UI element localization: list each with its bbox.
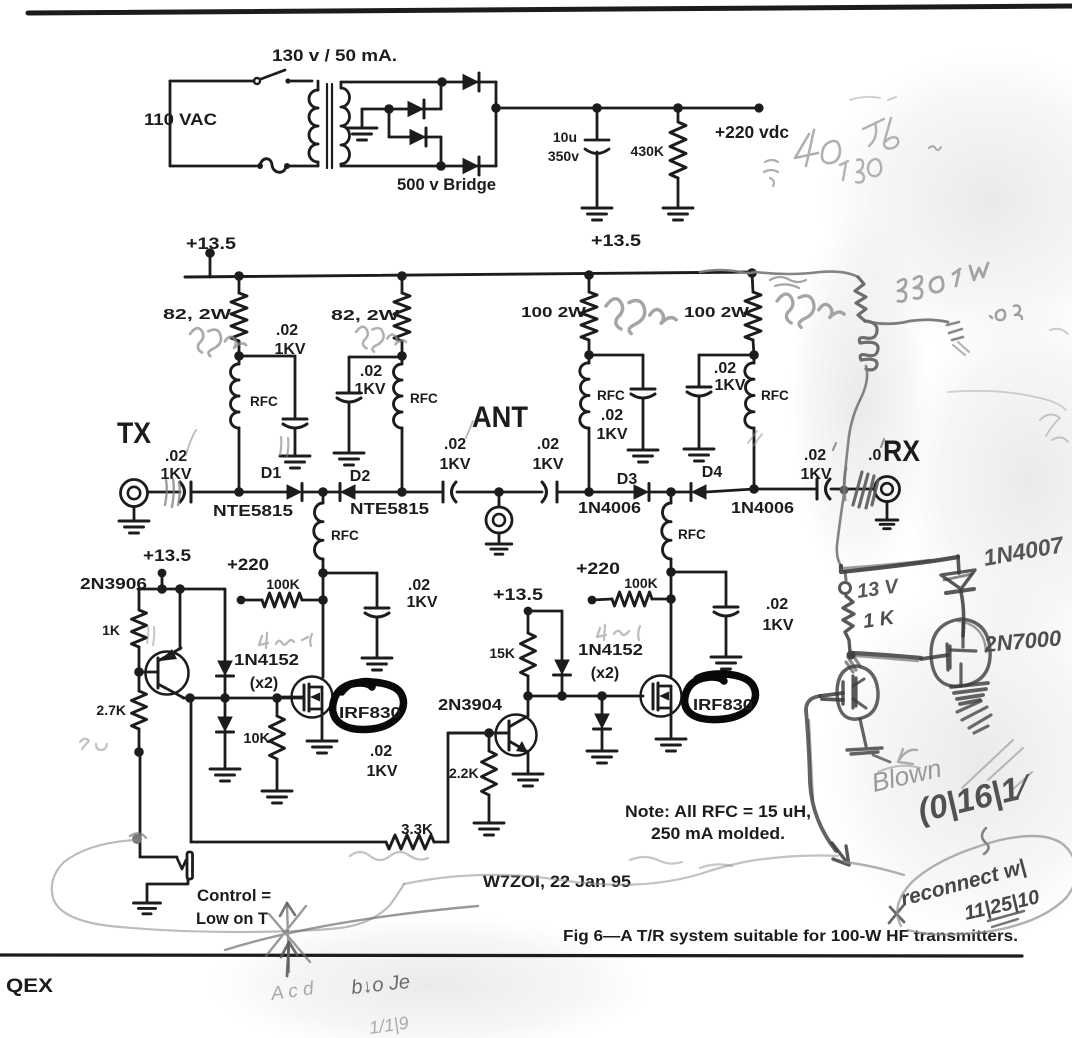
MOSFET Q4 IRF830 right <box>641 676 682 717</box>
pencil 9Dr col1 <box>190 328 246 356</box>
wire +13.5 bus <box>185 272 755 277</box>
ground col2 cap <box>334 453 364 465</box>
page top rule <box>28 6 1072 13</box>
node main mid-right <box>666 487 676 497</box>
ground bleeder <box>663 208 693 220</box>
capacitor 10u 350v <box>585 108 609 207</box>
ground filter cap <box>582 208 612 220</box>
svg-text:10K: 10K <box>243 731 270 747</box>
capacitor .02 1KV midright <box>714 607 738 656</box>
terminal +13.5 dot <box>205 248 215 258</box>
pencil marks near D1 <box>280 437 288 456</box>
ground col1 cap <box>280 456 310 468</box>
label NTE5815 right <box>350 501 429 518</box>
resistor 3.3K <box>386 835 434 849</box>
node ctl-gate b <box>220 693 230 703</box>
svg-text:ANT: ANT <box>472 401 528 434</box>
label .02 RXcap <box>804 447 826 464</box>
wire mosfet1 source <box>321 709 324 740</box>
wire mid down <box>388 109 391 137</box>
svg-text:+220 vdc: +220 vdc <box>715 122 789 142</box>
svg-text:1KV: 1KV <box>406 594 437 611</box>
node gateR b <box>557 691 567 701</box>
svg-text:100 2W: 100 2W <box>684 305 749 321</box>
wire secondary top rail <box>341 82 442 88</box>
svg-text:(x2): (x2) <box>250 675 278 692</box>
label 82,2W col1 <box>163 307 231 323</box>
diode bridge mid-lower <box>389 128 441 166</box>
ground mosfet1 <box>307 741 337 753</box>
ground 10K <box>262 791 292 803</box>
pencil note 1N4007 text <box>981 531 1066 571</box>
svg-text:1KV: 1KV <box>596 426 627 443</box>
label RFC mid-left <box>331 528 359 543</box>
svg-text:D4: D4 <box>702 464 723 481</box>
pencil 2N7000 source hatch <box>951 683 988 704</box>
wire 3.3K right <box>434 733 509 842</box>
svg-text:NTE5815: NTE5815 <box>350 501 429 518</box>
transistor Q2 2N3904 <box>448 696 537 773</box>
wire ctl collector drop <box>190 698 193 842</box>
svg-text:1KV: 1KV <box>366 763 397 780</box>
node bridge mid <box>384 104 394 114</box>
pencil scribble above bus col4 <box>770 277 806 288</box>
pencil coil hand <box>859 321 878 370</box>
svg-text:1N4152: 1N4152 <box>578 642 643 659</box>
wire +13.5 stub ctl <box>161 573 164 589</box>
ground midleft cap <box>362 658 392 670</box>
terminal +220 end dot <box>754 103 763 112</box>
pencil note 330 1W <box>898 263 988 302</box>
pencil 119 note <box>368 1013 410 1038</box>
pencil wire bus extension <box>700 270 858 277</box>
capacitor .02 1KV RX series <box>817 479 830 499</box>
svg-text:250 mA molded.: 250 mA molded. <box>651 824 785 843</box>
pencil oval loop reconnect <box>845 836 1072 935</box>
wire 3.3K left <box>191 841 386 844</box>
node main col1 <box>234 487 244 497</box>
svg-text:.02: .02 <box>444 436 466 453</box>
svg-text:2.7K: 2.7K <box>96 702 126 718</box>
pencil mark ANT slash <box>466 421 473 438</box>
connector ANT jack <box>486 492 512 533</box>
label RFC col4 <box>761 388 789 403</box>
svg-text:+13.5: +13.5 <box>143 546 191 565</box>
pencil ground 2N7000 <box>957 701 991 733</box>
wire primary stubs <box>317 81 320 166</box>
svg-text:TX: TX <box>117 417 151 450</box>
diode bridge mid-upper <box>389 82 441 118</box>
svg-text:RFC: RFC <box>678 527 706 542</box>
node ctl-gate a <box>185 693 195 703</box>
node ctl rail b <box>175 584 185 594</box>
ground midright cap <box>711 657 741 669</box>
pencil transistor 2N7000 hand <box>921 619 990 686</box>
label +13.5 ctrl-right <box>493 585 543 604</box>
label 1N4152 left <box>234 652 299 669</box>
label 2.2K <box>449 765 479 781</box>
svg-text:100K: 100K <box>624 575 657 591</box>
label IRF830 left <box>339 705 401 722</box>
resistor 100K left <box>241 593 323 607</box>
svg-text:1N4006: 1N4006 <box>578 500 641 517</box>
MOSFET Q3 IRF830 left <box>292 677 333 718</box>
label 1N4006 left <box>578 500 641 517</box>
fuse F1 <box>257 159 290 173</box>
node col1 junction <box>234 351 244 361</box>
pencil resistor hand zigzag <box>855 277 866 321</box>
RFC choke col2 <box>394 356 403 492</box>
diode D4 <box>671 484 754 501</box>
label 1KV midleft <box>406 594 437 611</box>
svg-text:1KV: 1KV <box>354 381 385 398</box>
wire clamp column top <box>224 589 225 661</box>
svg-text:QEX: QEX <box>6 975 53 997</box>
label 110 VAC <box>144 111 217 129</box>
svg-text:15K: 15K <box>489 645 515 661</box>
label 1K <box>102 622 120 638</box>
svg-text:D2: D2 <box>350 468 371 485</box>
svg-text:500 v Bridge: 500 v Bridge <box>397 175 496 194</box>
note RFC text1 <box>625 802 811 821</box>
label .02 capA1 <box>444 436 466 453</box>
pencil squiggle brace <box>982 828 989 854</box>
pencil note 2N7000 text <box>982 625 1063 657</box>
wire drain vertical left <box>322 573 325 677</box>
pencil wire down to RX line <box>844 366 867 489</box>
label 15K <box>489 645 515 661</box>
terminal +220 left dot <box>237 596 246 605</box>
wire capRX to RX <box>831 488 874 491</box>
wire RX ground stub <box>886 502 889 519</box>
svg-text:.02: .02 <box>766 596 788 613</box>
pencil note 13V <box>856 575 901 603</box>
wire col1 cap branch <box>239 356 295 419</box>
pencil 9Dr col4 <box>777 294 844 327</box>
page bottom rule <box>0 955 1022 956</box>
diode clamp D5 1N4152 <box>217 661 234 698</box>
svg-text:2N3906: 2N3906 <box>80 576 147 593</box>
svg-text:NTE5815: NTE5815 <box>213 503 293 520</box>
node gate-div left <box>318 595 328 605</box>
pencil note .02 right <box>990 305 1022 320</box>
transformer T1 primary winding <box>309 90 318 162</box>
node drain top right <box>666 567 676 577</box>
pencil faint curls right <box>948 329 1068 442</box>
svg-text:110 VAC: 110 VAC <box>144 111 217 129</box>
resistor 82ohm 2W col2 <box>394 276 410 356</box>
pencil wire to cap branch <box>869 320 948 324</box>
node drain top left <box>318 568 328 578</box>
label TX <box>117 417 151 450</box>
wire mosfet2 source <box>670 708 673 738</box>
wire gate bus right <box>528 695 643 698</box>
svg-text:RX: RX <box>883 435 920 468</box>
marker circle around IRF830 right <box>685 674 756 720</box>
label 130v/50mA <box>272 47 397 65</box>
svg-text:Low on T: Low on T <box>196 909 269 928</box>
wire drain vertical right <box>670 572 673 676</box>
label 100 2W col4 <box>684 305 749 321</box>
wire TX to cap <box>148 491 180 494</box>
label 82,2W col2 <box>331 308 399 324</box>
transformer T1 secondary winding <box>341 88 350 164</box>
pencil up arrow 1 <box>280 903 295 916</box>
label 1KV TXcap <box>160 466 191 483</box>
label QEX <box>6 975 53 997</box>
transistor Q1 2N3906 <box>139 589 189 698</box>
caption Fig 6 <box>563 928 1018 945</box>
diode D2 <box>323 484 402 501</box>
label RFC col2 <box>410 391 438 406</box>
node 2.7K bottom <box>134 747 144 757</box>
label 100K left <box>266 576 299 592</box>
label W7ZOI <box>483 872 631 891</box>
label 1N4006 right <box>731 500 794 517</box>
resistor 2.2K <box>482 733 497 822</box>
node ANT <box>494 487 504 497</box>
label (x2) left <box>250 675 278 692</box>
capacitor .02 1KV col3 <box>631 389 655 449</box>
wire col4 to capRX <box>754 488 816 491</box>
label 1N4152 right <box>578 642 643 659</box>
pencil left-transistor top shade <box>846 654 860 672</box>
node Q2 base <box>484 728 494 738</box>
resistor 100ohm 2W col3 <box>581 275 597 355</box>
node bus col2 <box>397 271 407 281</box>
svg-text:.02: .02 <box>408 577 430 594</box>
ground D8 <box>587 751 617 763</box>
label .02 midleft <box>408 577 430 594</box>
scan tone shading <box>210 50 1072 1038</box>
capacitor .02 1KV ANT-left series <box>443 482 456 502</box>
svg-text:.02: .02 <box>360 363 382 380</box>
pencil slashes <box>962 740 1032 790</box>
node ctl-gate c <box>272 693 282 703</box>
resistor 15K <box>521 611 536 696</box>
wire cap branch midright <box>671 572 726 607</box>
label D4 <box>702 464 723 481</box>
node main col4 <box>749 484 759 494</box>
label .02 col2 <box>360 363 382 380</box>
label 1KV RXcap <box>800 466 831 483</box>
label +220 right <box>576 559 620 578</box>
node col3 junction <box>584 350 594 360</box>
svg-text:D3: D3 <box>617 471 638 488</box>
ground col3 cap <box>628 450 658 462</box>
wire ctlR top <box>528 610 562 613</box>
pencil dark scribble X <box>225 903 478 972</box>
svg-text:RFC: RFC <box>761 388 789 403</box>
label D1 <box>261 465 282 482</box>
node bus col1 <box>234 271 244 281</box>
label 1KV capA2 <box>532 456 563 473</box>
label IRF830 right <box>693 697 753 714</box>
label 430K <box>631 143 664 159</box>
pencil hatch below D4 <box>748 431 762 446</box>
svg-text:1K: 1K <box>102 622 120 638</box>
svg-text:82, 2W: 82, 2W <box>163 307 231 323</box>
node main mid-left <box>318 487 328 497</box>
pencil 4m left <box>259 633 312 648</box>
resistor 1K <box>132 589 147 671</box>
node bus col4 <box>747 268 757 278</box>
wire to key jack <box>140 856 177 859</box>
svg-text:+220: +220 <box>227 555 269 574</box>
RFC choke col4 <box>745 355 754 489</box>
label 10u <box>553 129 577 145</box>
svg-text:.02: .02 <box>276 322 298 339</box>
label .02 under IRF830L <box>370 743 392 760</box>
pencil left source+gnd <box>847 719 890 762</box>
pencil approx squiggle <box>764 160 778 186</box>
label +220 left <box>227 555 269 574</box>
label D2 <box>350 468 371 485</box>
resistor 2.7K <box>132 672 147 752</box>
label (x2) right <box>591 665 619 682</box>
wire col2 cap branch <box>349 357 402 393</box>
pencil bJe note <box>350 971 411 999</box>
svg-text:Fig 6—A T/R system suitable fo: Fig 6—A T/R system suitable for 100-W HF… <box>563 928 1018 945</box>
ground TX jack <box>119 521 149 533</box>
svg-text:D1: D1 <box>261 465 282 482</box>
label 2N3906 <box>80 576 147 593</box>
diode clamp D6 1N4152 <box>217 698 234 768</box>
label .02 TXcap <box>165 448 187 465</box>
pencil note 1K hand <box>862 607 897 633</box>
label 1KV col1 <box>274 341 305 358</box>
wire secondary bottom rail <box>341 164 443 166</box>
ground clamp left <box>210 769 240 781</box>
diode bridge top <box>442 73 496 108</box>
pencil up arrow 2 <box>281 942 297 976</box>
label 10K <box>243 731 270 747</box>
svg-text:100K: 100K <box>266 576 299 592</box>
svg-text:IRF830: IRF830 <box>693 697 753 714</box>
svg-text:2.2K: 2.2K <box>449 765 479 781</box>
wire ANT to capA2 <box>499 491 542 494</box>
svg-text:1KV: 1KV <box>274 341 305 358</box>
svg-text:1N4006: 1N4006 <box>731 500 794 517</box>
ground bridge center tap <box>347 128 377 140</box>
node bleeder <box>673 103 683 113</box>
capacitor .02 1KV midleft <box>365 608 389 657</box>
label 1KV midright <box>762 617 793 634</box>
svg-text:RFC: RFC <box>410 391 438 406</box>
pencil marks TX cap <box>165 430 196 507</box>
svg-text:1 K: 1 K <box>862 607 897 633</box>
pencil wavy over 3.3K <box>350 852 732 868</box>
label 1KV col4 <box>714 377 745 394</box>
svg-text:1KV: 1KV <box>532 456 563 473</box>
label 3.3K <box>401 821 433 838</box>
svg-text:1KV: 1KV <box>439 456 470 473</box>
pencil node blob gate <box>847 651 856 660</box>
marker circle around IRF830 left <box>333 681 404 730</box>
connector TX jack <box>121 480 148 507</box>
wire +13.5 stub <box>209 253 212 277</box>
pencil Blown note <box>869 753 945 798</box>
label .02 col1 <box>276 322 298 339</box>
svg-text:.02: .02 <box>714 360 736 377</box>
pencil apostrophe near RXcap <box>833 439 884 450</box>
label RFC col3 <box>597 388 625 403</box>
pencil big loop bottom left <box>52 840 404 932</box>
label +13.5 feed <box>186 234 236 253</box>
node gateR c <box>597 691 607 701</box>
RFC choke mid-left <box>314 492 323 573</box>
svg-text:.02: .02 <box>370 743 392 760</box>
pencil transistor left hand <box>820 666 878 719</box>
label .0 fragment <box>868 447 881 464</box>
capacitor .02 1KV col2 <box>337 393 361 452</box>
label RX <box>883 435 920 468</box>
pencil wire down-left hand <box>806 696 836 851</box>
pencil hatch RX line <box>844 468 878 508</box>
RFC choke mid-right <box>662 492 671 572</box>
pencil 10/16 note <box>914 766 1036 828</box>
diode bridge bottom <box>441 108 496 175</box>
pencil marks near Q1 <box>147 626 154 645</box>
terminal +220 right dot <box>588 596 597 605</box>
svg-text:10u: 10u <box>553 129 577 145</box>
switch S1 <box>254 70 291 84</box>
wire col4 cap branch <box>699 355 754 387</box>
wire 2.7K to switch <box>139 752 142 857</box>
wire +220 rail <box>496 107 759 110</box>
svg-text:Note: All RFC = 15 uH,: Note: All RFC = 15 uH, <box>625 802 811 821</box>
node main col3 <box>584 487 594 497</box>
pencil R arrow note <box>878 749 920 772</box>
resistor 100ohm 2W col4 <box>745 273 761 355</box>
wire gate lead left <box>277 696 304 699</box>
resistor 100K right <box>592 592 671 606</box>
pencil 2u left margin <box>80 739 107 750</box>
svg-text:.02: .02 <box>165 448 187 465</box>
wire gate bus left <box>183 697 304 700</box>
label 1KV under IRF830L <box>366 763 397 780</box>
ground control <box>134 903 161 914</box>
node col2 junction <box>397 351 407 361</box>
pencil 9Dr col2 <box>356 327 406 352</box>
node bridge top <box>437 77 447 87</box>
label .02 col3 <box>601 407 623 424</box>
pencil note 130 <box>840 159 881 183</box>
pencil 4m right <box>597 625 640 640</box>
svg-text:350v: 350v <box>548 148 579 164</box>
pencil faint dashes top <box>850 97 896 100</box>
resistor 10K <box>270 698 285 790</box>
svg-text:.02: .02 <box>601 407 623 424</box>
label D3 <box>617 471 638 488</box>
resistor 82ohm 2W col1 <box>231 276 247 356</box>
switch key bar <box>187 852 193 879</box>
node gate-div right <box>666 594 676 604</box>
node PS output <box>491 103 501 113</box>
pencil 9Dr col3 <box>606 299 676 334</box>
ground ANT jack <box>486 533 512 554</box>
svg-text:130 v / 50 mA.: 130 v / 50 mA. <box>272 47 397 65</box>
svg-text:430K: 430K <box>631 143 664 159</box>
label 1KV col3 <box>596 426 627 443</box>
svg-text:1N4152: 1N4152 <box>234 652 299 669</box>
svg-text:1KV: 1KV <box>762 617 793 634</box>
RFC choke col3 <box>580 355 589 492</box>
pencil x mark <box>889 906 904 923</box>
pencil underline date <box>988 911 1024 927</box>
label 1KV col2 <box>354 381 385 398</box>
svg-text:.0: .0 <box>868 447 881 464</box>
